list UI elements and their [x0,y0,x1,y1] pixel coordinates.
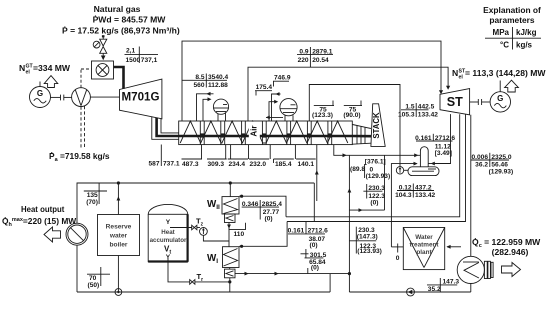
shaft: compressor to turbine [90,96,119,98]
svg-text:560: 560 [193,82,204,89]
svg-text:MPa: MPa [493,28,510,37]
svg-text:M701G: M701G [121,91,159,104]
header downcomers with junction blocks [199,121,201,145]
valve T_r [190,280,193,285]
label: 232.0 [249,158,269,160]
svg-text:0.12: 0.12 [399,184,412,191]
svg-text:(129.93): (129.93) [489,168,514,175]
wire: economizer to drum2 with arrow [266,116,283,118]
svg-text:(0): (0) [310,242,318,249]
HRSG duct [179,121,353,145]
svg-text:(89.8: (89.8 [350,166,365,173]
svg-text:2712.6: 2712.6 [435,135,456,142]
wire: condenser bottom to hotwell line [470,284,472,293]
HP drum [213,99,228,114]
label: 75 (123.3) [314,105,334,107]
IP drum [280,99,297,116]
svg-text:232.0: 232.0 [250,161,267,168]
svg-text:587: 587 [148,161,159,168]
label: 70 (50) [87,273,110,275]
drum1 piping [197,94,214,121]
generator G2 [490,92,510,112]
svg-text:el: el [26,70,31,76]
svg-text:437.2: 437.2 [415,184,432,191]
wire: extraction x=465.5 down and left [287,114,465,221]
svg-text:0.006: 0.006 [471,154,488,161]
svg-text:(0): (0) [311,265,319,272]
label: 0.346|2825.4 27.77 (0) [242,206,279,208]
deaerator vessel [408,167,439,176]
label: 587|737.1 [160,145,162,167]
svg-text:2879.1: 2879.1 [312,48,333,55]
wire: fuel to combustor with arrow [102,54,104,57]
svg-text:plant: plant [416,249,432,256]
label: 230.3 / 122.3 (0) [366,184,368,199]
wire: arrow into WT plant [447,246,461,248]
svg-text:Heat: Heat [161,229,174,236]
svg-text:147.3: 147.3 [443,279,460,286]
label: 0.006|2325.0 36.2|56.46 (129.93) [471,159,509,161]
svg-text:Ṗ = 17.52 kg/s (86,973 Nm³/h): Ṗ = 17.52 kg/s (86,973 Nm³/h) [62,26,180,36]
wire: extraction to deaerator x=450.5 [431,114,450,163]
feed pump to HRSG [396,167,403,174]
combustion chamber [92,61,114,79]
wire: ST to condenser x=470.8 [470,115,472,257]
label: 301.5 65.84 (0) [301,253,309,255]
svg-text:Heat output: Heat output [21,205,65,214]
label: 140.1 [296,158,316,160]
svg-text:2,1: 2,1 [126,48,135,55]
svg-text:accumulator: accumulator [150,237,187,244]
wire: W_I condensate line to junction [239,222,287,247]
svg-text:3540.4: 3540.4 [208,74,229,81]
svg-text:(147.3): (147.3) [357,233,378,240]
label: 185.4 [274,158,294,160]
svg-text:0.346: 0.346 [242,201,259,208]
heat network supply line [77,183,314,223]
svg-text:(129.93): (129.93) [366,173,391,180]
svg-text:[3.49]: [3.49] [435,150,452,157]
condensate return box line (309.3,121)-(400,84.5)-(400,pump) [309,85,400,167]
hollow arrow left (heat output) [44,227,61,242]
svg-text:1.5: 1.5 [405,104,414,111]
wire: W_II steam supply from ST [239,196,286,217]
svg-text:el: el [459,75,464,81]
HP steam line to ST [182,41,441,121]
shaft coupling ST-G2 [470,101,479,103]
label: 309.3 [207,158,227,160]
label: 234.4 [228,158,248,160]
junction dot boiler riser [117,181,120,184]
heat exchanger zigzag coils [180,121,348,143]
label: 135 (70) [84,190,107,192]
wire: W_II riser to network line [229,183,231,197]
svg-text:0.9: 0.9 [299,48,308,55]
wire: accumulator charge line [170,227,192,229]
svg-text:ṖWd = 845.57 MW: ṖWd = 845.57 MW [93,15,167,25]
wire: W_I drain line with arrows [235,273,349,275]
svg-text:water: water [109,233,128,240]
svg-text:Natural gas: Natural gas [94,4,141,14]
svg-text:70: 70 [89,275,97,282]
condensate pump [407,288,415,296]
svg-text:Explanation of: Explanation of [483,5,541,15]
label: 110 [229,228,247,230]
svg-text:(123.3): (123.3) [312,112,333,119]
svg-text:20.54: 20.54 [312,57,329,64]
wire: condensate riser x=391.4 to dome [391,164,416,247]
svg-text:(90.0): (90.0) [343,112,360,119]
steam turbine ST [440,89,470,115]
wire: boiler down to bottom line with circulation pump [117,256,119,293]
svg-text:234.4: 234.4 [229,161,246,168]
svg-text:°C: °C [500,41,509,50]
svg-text:STACK: STACK [372,112,381,139]
wire: compressor discharge dashed to combustor [80,69,82,88]
svg-text:ST: ST [447,95,463,109]
svg-text:135: 135 [87,192,98,199]
wire: line into dome right side from extraction [428,163,431,165]
label: IP steam 0.9|2879.1 220|20.54 [297,54,333,56]
svg-text:(282.946): (282.946) [492,247,529,257]
svg-text:(0): (0) [370,200,378,207]
wire: accumulator discharge bottom [168,259,190,282]
svg-text:309.3: 309.3 [208,161,225,168]
svg-text:= 113,3 (144,28) MW: = 113,3 (144,28) MW [465,68,546,78]
svg-text:G: G [37,89,43,98]
valve T_z [192,225,195,230]
drum2 piping [272,94,281,121]
svg-text:105.3: 105.3 [398,111,415,118]
wire: to bottom line [229,278,231,292]
svg-text:(123.93): (123.93) [357,248,382,255]
svg-text:Water: Water [415,234,433,241]
label: 147.3 / 35.2 [427,284,457,286]
svg-text:442.5: 442.5 [418,104,435,111]
label: 0.161|2712.6 11.12 [3.49] [416,140,453,142]
svg-text:185.4: 185.4 [275,161,292,168]
svg-text:737,1: 737,1 [141,57,158,64]
label: 1.5|442.5 105.3|133.42 [401,109,429,111]
svg-text:(0): (0) [265,216,273,223]
wire: condensate bottom line right segment [349,291,470,293]
hollow arrow right (cooling heat out) [502,263,521,277]
condenser [457,256,484,283]
svg-text:(50): (50) [88,282,100,289]
compressor [72,88,91,107]
water treatment plant [403,228,444,270]
svg-text:N: N [19,63,25,73]
wire: flue gas sample line to stack labels and deaerator [334,145,420,156]
svg-text:112.88: 112.88 [208,82,228,89]
svg-text:kg/s: kg/s [516,41,533,50]
condenser flange plates [484,261,487,278]
label: 230.3 (147.3) / 122.3 (123.93) [355,227,357,254]
svg-text:parameters: parameters [489,15,535,25]
hollow arrow up (ST power) [505,80,519,92]
deaerator dome [420,147,428,167]
heat accumulator [148,204,188,214]
svg-text:133.42: 133.42 [418,111,439,118]
svg-text:140.1: 140.1 [298,161,315,168]
svg-text:8.5: 8.5 [195,74,204,81]
wire: jog junction at bottom [348,274,350,292]
svg-text:175.4: 175.4 [256,84,273,91]
label: 0.161|2712.6 38.07 (0) [288,233,325,235]
wire: combustor to turbine thick [114,67,124,89]
wire: W_II to W_I connection with arrow [228,223,230,247]
label: 75 (90.0) [344,105,362,107]
svg-text:Y: Y [166,219,171,226]
svg-text:133.42: 133.42 [415,192,436,199]
label: 0.12|437.2 104.3|133.42 [397,190,434,192]
svg-text:2825.4: 2825.4 [262,201,283,208]
svg-text:2712.6: 2712.6 [308,228,329,235]
accumulator charge pump [200,228,208,236]
wire: circle to bottom line [76,245,78,292]
svg-text:110: 110 [234,231,245,238]
svg-text:35.2: 35.2 [428,286,441,293]
wire: long vertical x=349.4 [348,155,350,273]
svg-text:1500: 1500 [126,57,141,64]
svg-text:=334 MW: =334 MW [33,63,71,73]
svg-text:(70): (70) [86,199,98,206]
generator G1 [30,87,51,108]
svg-text:737.1: 737.1 [163,161,180,168]
svg-text:2325.0: 2325.0 [491,154,512,161]
wire: boiler riser with up arrow [117,183,119,215]
svg-text:0.161: 0.161 [288,228,305,235]
actuator on fuel valve [93,41,100,48]
svg-text:0: 0 [396,255,400,262]
svg-text:N: N [452,68,458,78]
wire: extraction x=459.7 down and left to W_II [286,114,460,217]
reserve water boiler [98,215,140,256]
svg-text:487.3: 487.3 [182,161,199,168]
svg-text:36.2: 36.2 [475,162,488,169]
svg-text:boiler: boiler [110,242,128,249]
heat exchanger station circle [66,223,88,245]
label: 0 drain [397,244,399,253]
wire: air intake dashed [80,107,82,150]
svg-text:0.161: 0.161 [415,135,432,142]
wire: HRSG network heater drop [316,145,318,202]
valve: fuel control valve [100,39,107,46]
label: HP steam 8.5|3540.4 560|112.88 [182,79,193,81]
wire: condensate bottom line left segment [77,291,330,293]
svg-text:Air: Air [250,125,259,136]
svg-text:Reserve: Reserve [106,224,132,231]
IP steam line to ST [248,67,448,121]
hollow arrow up (GT power) [44,76,58,88]
svg-text:kJ/kg: kJ/kg [516,28,537,37]
gas turbine M701G [120,79,162,119]
svg-text:treatment: treatment [409,242,439,249]
shaft coupling G1-compressor [51,96,61,98]
svg-text:G: G [497,94,503,103]
wire: WT feed from riser [391,246,403,248]
svg-text:220: 220 [298,57,309,64]
stack [371,104,385,147]
svg-text:[376.1]: [376.1] [365,158,386,165]
label: 487.3 [182,158,203,160]
svg-text:230.3: 230.3 [368,185,385,192]
stack transition nozzle [353,125,371,129]
svg-text:746.9: 746.9 [274,75,291,82]
wire: network drop to extraction line [313,183,315,222]
wire: vertical x=384.5 from sample line down and branch left [384,155,386,210]
svg-text:104.3: 104.3 [395,192,412,199]
wire: GT exhaust thick duct [152,117,179,140]
label: Air (duct firing) [249,122,260,144]
wire: fuel inlet stub [102,35,105,37]
